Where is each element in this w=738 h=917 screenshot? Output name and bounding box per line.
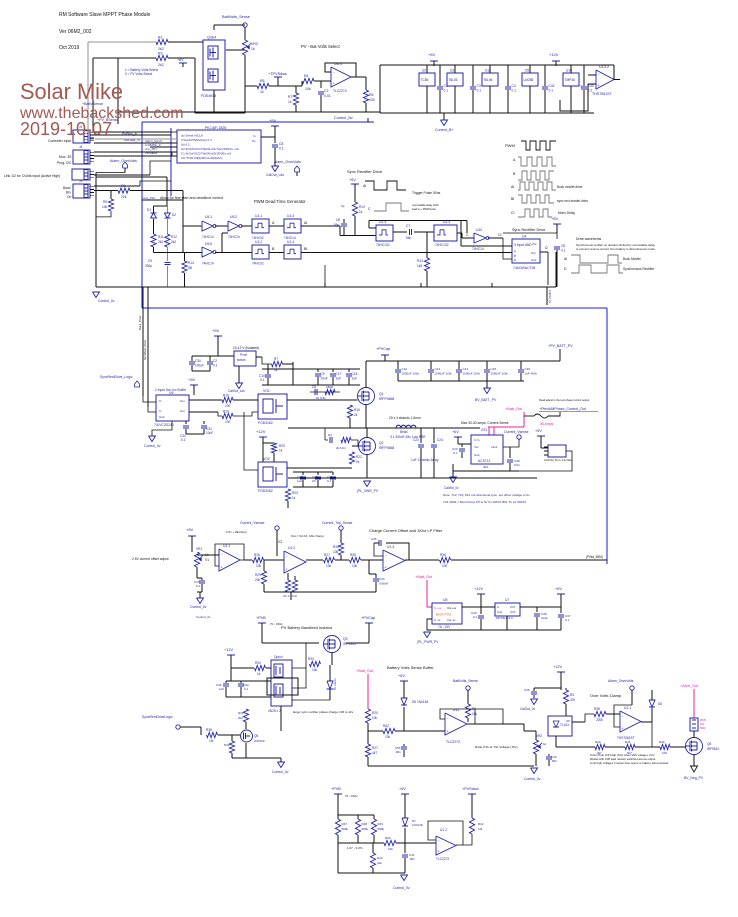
svg-text:IRFP4668: IRFP4668 — [379, 397, 394, 401]
svg-text:TC55: TC55 — [421, 78, 429, 82]
svg-text:V1: V1 — [205, 558, 209, 562]
svg-text:Control_0v: Control_0v — [393, 886, 410, 890]
svg-text:10k: 10k — [385, 735, 391, 739]
svg-text:monostable delay 100n: monostable delay 100n — [412, 203, 439, 207]
svg-text:U5.1: U5.1 — [205, 215, 212, 219]
svg-text:MC78LF-5.0: MC78LF-5.0 — [496, 616, 513, 620]
svg-text:R16: R16 — [354, 408, 360, 412]
svg-text:TLC2272: TLC2272 — [446, 740, 460, 744]
svg-text:+Batt_Out: +Batt_Out — [415, 575, 433, 579]
svg-text:0.1: 0.1 — [327, 479, 332, 483]
svg-text:C14: C14 — [463, 367, 469, 371]
svg-text:Alarm_OverVolts: Alarm_OverVolts — [274, 160, 301, 164]
svg-text:THS7081ST: THS7081ST — [592, 92, 613, 96]
svg-text:C7: C7 — [406, 224, 410, 228]
svg-text:0.01: 0.01 — [324, 94, 331, 98]
svg-text:330p: 330p — [145, 264, 152, 268]
svg-text:Cl: Cl — [498, 233, 502, 237]
svg-text:R8: R8 — [121, 184, 125, 188]
svg-text:Al: Al — [363, 184, 366, 188]
svg-text:2k2: 2k2 — [158, 47, 164, 51]
svg-text:4k7: 4k7 — [372, 751, 377, 755]
svg-text:R32: R32 — [255, 661, 261, 665]
svg-text:10k: 10k — [372, 716, 378, 720]
svg-text:74HC02: 74HC02 — [252, 262, 264, 266]
svg-text:Q3: Q3 — [343, 637, 348, 641]
svg-text:40A: 40A — [483, 465, 488, 469]
svg-text:C36: C36 — [524, 688, 530, 692]
svg-text:R7: R7 — [288, 95, 292, 99]
svg-text:Q2: Q2 — [379, 441, 384, 445]
svg-text:U10: U10 — [476, 228, 482, 232]
svg-text:PIC16F-1826: PIC16F-1826 — [205, 126, 226, 130]
svg-text:R20: R20 — [372, 711, 378, 715]
svg-text:C30: C30 — [195, 359, 201, 363]
svg-text:+6V: +6V — [551, 216, 559, 221]
svg-text:U1.1: U1.1 — [255, 214, 262, 218]
svg-text:R38: R38 — [206, 728, 212, 732]
svg-text:R1: R1 — [158, 36, 163, 40]
svg-text:100: 100 — [225, 420, 231, 424]
svg-text:Max 30-40 amps, Current Sense: Max 30-40 amps, Current Sense — [461, 421, 509, 425]
svg-text:+Batt_Out: +Batt_Out — [356, 669, 374, 673]
svg-text:PWM Dead Time Generator: PWM Dead Time Generator — [254, 199, 306, 204]
svg-text:VR3: VR3 — [251, 42, 258, 46]
svg-text:+PVSdsw: +PVSdsw — [462, 787, 479, 791]
svg-text:C18: C18 — [352, 372, 358, 376]
svg-text:U1.2: U1.2 — [255, 240, 262, 244]
svg-text:A: A — [514, 249, 516, 253]
svg-text:U13.2: U13.2 — [599, 65, 609, 69]
svg-text:10uF: 10uF — [321, 377, 328, 381]
svg-text:R39: R39 — [224, 743, 230, 747]
svg-text:Control_0v: Control_0v — [190, 605, 207, 609]
svg-text:+TPVSdsw: +TPVSdsw — [268, 72, 287, 76]
svg-text:.001: .001 — [551, 759, 557, 763]
svg-text:R22: R22 — [356, 455, 362, 459]
svg-text:+PV_BATT_PV: +PV_BATT_PV — [548, 344, 573, 348]
svg-text:723 40A5 = 50mV/Amp P8 to 5v f: 723 40A5 = 50mV/Amp P8 to 5v for 20Khz B… — [443, 500, 527, 504]
svg-text:20 x 4 strands 1.6mm: 20 x 4 strands 1.6mm — [389, 416, 421, 420]
svg-text:Buck mosfet drive: Buck mosfet drive — [557, 185, 583, 189]
svg-text:0.1: 0.1 — [260, 378, 265, 382]
svg-text:Al: Al — [564, 257, 567, 261]
svg-text:CalOut_Lds: CalOut_Lds — [266, 173, 284, 177]
svg-text:1M: 1M — [478, 827, 483, 831]
svg-text:+5V: +5V — [212, 328, 220, 333]
svg-text:Sp: Sp — [341, 204, 345, 208]
svg-text:U4: U4 — [522, 235, 526, 239]
svg-text:+PVCap: +PVCap — [376, 347, 390, 351]
svg-text:2k2: 2k2 — [158, 63, 164, 67]
svg-text:U7: U7 — [505, 598, 509, 602]
svg-text:R41: R41 — [625, 740, 631, 744]
svg-text:Bl: Bl — [511, 197, 514, 201]
svg-text:U1.3: U1.3 — [287, 214, 294, 218]
svg-text:R27: R27 — [372, 746, 378, 750]
svg-text:Alarm_OverVolts: Alarm_OverVolts — [608, 679, 634, 683]
svg-text:Limit high voltages if output: Limit high voltages if output fuse opens… — [590, 761, 669, 765]
svg-text:+6V: +6V — [555, 587, 562, 591]
svg-text:+PVCap: +PVCap — [361, 616, 375, 620]
svg-text:0.1: 0.1 — [477, 89, 482, 93]
svg-text:Control_0v: Control_0v — [98, 299, 115, 303]
svg-text:U2: U2 — [422, 69, 426, 73]
svg-text:0.1: 0.1 — [181, 438, 186, 442]
svg-text:R9: R9 — [103, 200, 107, 204]
svg-text:3 Input AND: 3 Input AND — [514, 243, 532, 247]
svg-text:680k: 680k — [378, 827, 385, 831]
svg-text:1k: 1k — [292, 496, 296, 500]
svg-text:70 - 150v: 70 - 150v — [345, 794, 358, 798]
svg-text:56p: 56p — [334, 223, 340, 227]
svg-text:(PWa_55M): (PWa_55M) — [586, 555, 603, 559]
svg-text:1k: 1k — [543, 742, 547, 746]
svg-text:CS1: CS1 — [481, 428, 487, 432]
svg-text:Q6: Q6 — [707, 742, 711, 746]
svg-text:1k: 1k — [288, 100, 292, 104]
svg-text:+12V: +12V — [256, 429, 266, 434]
svg-text:In In: In In — [474, 438, 480, 442]
svg-text:7A - 15V: 7A - 15V — [438, 625, 451, 629]
svg-text:78L06: 78L06 — [484, 78, 493, 82]
svg-text:R10: R10 — [359, 205, 365, 209]
svg-text:+6V: +6V — [349, 178, 356, 182]
svg-text:D: D — [514, 258, 516, 262]
svg-text:Out = V2-V1, Min-V/amp: Out = V2-V1, Min-V/amp — [291, 534, 324, 538]
svg-text:0.1: 0.1 — [549, 89, 554, 93]
svg-text:Current_Vsense: Current_Vsense — [504, 430, 529, 434]
svg-text:Mono Delay: Mono Delay — [558, 211, 575, 215]
svg-text:74HC132: 74HC132 — [376, 243, 390, 247]
svg-text:J5: J5 — [79, 179, 83, 183]
svg-text:0.1: 0.1 — [512, 89, 517, 93]
svg-text:R47: R47 — [342, 822, 348, 826]
svg-text:680k: 680k — [342, 827, 349, 831]
svg-text:1000uF 100v: 1000uF 100v — [463, 372, 481, 376]
svg-text:(PL_0WR_PV: (PL_0WR_PV — [357, 489, 379, 493]
svg-text:R4: R4 — [304, 74, 309, 78]
svg-text:+12V: +12V — [474, 587, 483, 591]
svg-text:C2 Ib/Od/VCC/Thb0/0+b1/Tqv/1P: C2 Ib/Od/VCC/Thb0/0+b1/Tqv/1P0/b0+ mS — [181, 147, 239, 151]
svg-text:2k2: 2k2 — [158, 240, 163, 244]
svg-text:TMP36: TMP36 — [565, 78, 576, 82]
svg-text:Out: Out — [531, 251, 536, 255]
svg-text:0.01: 0.01 — [514, 463, 520, 467]
svg-text:Charge Current Offset and 1Khz: Charge Current Offset and 1Khz LP Filter — [369, 528, 443, 533]
svg-text:R36: R36 — [440, 553, 446, 557]
svg-text:larger sync rectifier pulses c: larger sync rectifier pulses charge C36 … — [293, 710, 354, 714]
svg-text:+PlexiAMPhase_Control_Out: +PlexiAMPhase_Control_Out — [539, 407, 586, 411]
svg-text:On: On — [67, 195, 71, 199]
svg-text:BattVolts_Sense: BattVolts_Sense — [222, 15, 250, 19]
svg-text:1P: 1P — [312, 479, 316, 483]
svg-text:10uF: 10uF — [541, 616, 548, 620]
svg-text:(a) Serial In/CLK: (a) Serial In/CLK — [181, 134, 203, 138]
svg-text:1000uF 100v: 1000uF 100v — [402, 372, 420, 376]
svg-text:C1: C1 — [444, 84, 448, 88]
svg-text:45 Amps: 45 Amps — [540, 422, 553, 426]
svg-text:J4: J4 — [79, 145, 83, 149]
svg-text:74HC14: 74HC14 — [202, 262, 214, 266]
svg-text:C0 /Thb0 0d(0)/D0+b+b0/DAC): C0 /Thb0 0d(0)/D0+b+b0/DAC) — [181, 156, 223, 160]
svg-text:IRFP4668: IRFP4668 — [379, 446, 394, 450]
svg-text:C16: C16 — [525, 367, 531, 371]
svg-text:1k: 1k — [260, 90, 264, 94]
svg-text:1uF 400v: 1uF 400v — [525, 372, 538, 376]
svg-text:0.1: 0.1 — [244, 687, 249, 691]
svg-text:C2: C2 — [213, 359, 217, 363]
svg-text:74HC24: 74HC24 — [228, 235, 240, 239]
svg-text:C6: C6 — [312, 385, 316, 389]
svg-text:R38: R38 — [594, 707, 600, 711]
svg-text:−: − — [622, 715, 624, 719]
svg-text:Aux_PIN: Aux_PIN — [143, 196, 155, 200]
svg-text:4N25 x 2: 4N25 x 2 — [268, 709, 281, 713]
svg-text:6-R: 6-R — [292, 594, 298, 598]
svg-text:0.1: 0.1 — [565, 618, 570, 622]
svg-text:1uF: 1uF — [219, 687, 224, 691]
svg-text:In: In — [253, 134, 256, 138]
svg-text:R34: R34 — [333, 545, 339, 549]
svg-text:R48: R48 — [362, 822, 368, 826]
svg-text:Over Volts Clamp: Over Volts Clamp — [590, 693, 622, 698]
svg-text:Q5: Q5 — [254, 734, 258, 738]
svg-text:1k: 1k — [251, 47, 255, 51]
svg-text:Bead: Bead — [400, 430, 408, 434]
svg-text:TLC2274: TLC2274 — [333, 89, 347, 93]
svg-text:VO2: VO2 — [263, 457, 270, 461]
svg-text:D6: D6 — [658, 702, 662, 706]
svg-text:Al: Al — [304, 221, 307, 225]
svg-text:C8: C8 — [336, 218, 340, 222]
svg-text:R45: R45 — [385, 836, 391, 840]
svg-text:Control_0v: Control_0v — [524, 777, 541, 781]
svg-text:U9: U9 — [169, 391, 173, 395]
svg-text:+: + — [438, 850, 440, 854]
svg-text:22k: 22k — [121, 195, 127, 199]
svg-text:Buck Mosfet: Buck Mosfet — [623, 257, 641, 261]
svg-text:Out: Out — [180, 399, 185, 403]
svg-text:D2: D2 — [172, 213, 176, 217]
svg-text:1k: 1k — [279, 449, 283, 453]
svg-text:Current_B+: Current_B+ — [435, 128, 453, 132]
svg-text:−: − — [221, 553, 223, 557]
svg-text:OUT: OUT — [510, 610, 516, 614]
svg-text:CalOut_0v: CalOut_0v — [548, 290, 552, 304]
svg-text:Baud: Baud — [63, 186, 71, 190]
svg-text:−: − — [447, 717, 449, 721]
svg-text:IRF4905: IRF4905 — [343, 642, 356, 646]
svg-text:Pv: Pv — [252, 139, 256, 143]
svg-text:C34: C34 — [379, 577, 385, 581]
svg-text:Current_Trip_Sense: Current_Trip_Sense — [322, 521, 353, 525]
svg-text:FOD3182: FOD3182 — [258, 489, 273, 493]
svg-text:Bin: Bin — [66, 191, 71, 195]
svg-text:Note: 712, 723, 812 uni-direct: Note: 712, 723, 812 uni-directional type… — [443, 493, 530, 497]
svg-text:R43: R43 — [378, 822, 384, 826]
svg-text:R20: R20 — [279, 444, 285, 448]
svg-text:BV_BATT_PV: BV_BATT_PV — [475, 398, 497, 402]
svg-text:R11: R11 — [158, 235, 164, 239]
svg-text:Gnd: Gnd — [497, 610, 502, 614]
svg-text:Control_0v: Control_0v — [272, 770, 289, 774]
svg-text:180R: 180R — [326, 385, 334, 389]
svg-text:74HC14: 74HC14 — [472, 247, 484, 251]
svg-text:1uF Ceramic Array: 1uF Ceramic Array — [411, 458, 439, 462]
svg-text:SyncRectDrive_Logic: SyncRectDrive_Logic — [100, 375, 133, 379]
svg-text:10k: 10k — [326, 564, 332, 568]
svg-text:Alarm_OverVolts: Alarm_OverVolts — [110, 159, 137, 163]
svg-text:BattVolts_Sense: BattVolts_Sense — [453, 679, 478, 683]
svg-text:+PVB: +PVB — [256, 616, 266, 620]
svg-text:10k: 10k — [388, 847, 393, 851]
svg-text:47k: 47k — [570, 698, 576, 702]
svg-text:2k 6.0n: 2k 6.0n — [336, 446, 346, 450]
svg-text:VR2: VR2 — [536, 734, 542, 738]
svg-text:Allow for fine start and deadt: Allow for fine start and deadtime contro… — [160, 196, 223, 200]
svg-text:78L05: 78L05 — [449, 78, 458, 82]
svg-text:U5.2: U5.2 — [230, 215, 237, 219]
svg-text:D4: D4 — [328, 433, 332, 437]
svg-text:C9: C9 — [148, 259, 152, 263]
svg-text:100uF: 100uF — [195, 364, 204, 368]
svg-text:74HC132: 74HC132 — [435, 243, 449, 247]
svg-text:C: C — [466, 233, 469, 237]
svg-text:C: C — [368, 207, 371, 211]
svg-text:.001: .001 — [395, 750, 401, 754]
svg-text:TLC2272: TLC2272 — [436, 857, 449, 861]
svg-text:6B: 6B — [188, 266, 192, 270]
svg-text:D1: D1 — [147, 208, 151, 212]
svg-text:C8: C8 — [279, 142, 283, 146]
svg-text:Gnd: Gnd — [474, 453, 480, 457]
svg-text:(T/p/p/b/VM)/Vq/(p) 0.4: (T/p/p/b/VM)/Vq/(p) 0.4 — [181, 138, 212, 142]
svg-text:sync rect mosfet drive: sync rect mosfet drive — [557, 199, 588, 203]
svg-text:RM Software Slave MPPT Phase M: RM Software Slave MPPT Phase Module — [59, 12, 151, 18]
svg-text:R46: R46 — [659, 740, 665, 744]
svg-text:1N4148: 1N4148 — [412, 823, 423, 827]
svg-text:1.07 - 3.37v: 1.07 - 3.37v — [347, 846, 363, 850]
svg-text:R15: R15 — [223, 394, 229, 398]
svg-text:U1.2: U1.2 — [440, 828, 447, 832]
svg-text:+12V: +12V — [224, 648, 233, 652]
svg-text:0.1: 0.1 — [279, 147, 284, 151]
svg-text:0.1: 0.1 — [453, 451, 458, 455]
svg-text:Q1: Q1 — [379, 392, 384, 396]
svg-text:R33: R33 — [308, 657, 314, 661]
svg-text:Current_Vsense: Current_Vsense — [240, 521, 265, 525]
svg-text:R25: R25 — [254, 553, 260, 557]
svg-text:R7: R7 — [274, 357, 278, 361]
svg-text:−: − — [438, 839, 440, 843]
svg-text:PV - Bat Volts Select: PV - Bat Volts Select — [301, 44, 340, 49]
svg-text:0.1: 0.1 — [561, 249, 566, 253]
svg-text:10-12 V (isolated): 10-12 V (isolated) — [233, 346, 259, 350]
svg-text:Sync Rectifier Drive: Sync Rectifier Drive — [347, 169, 383, 174]
svg-text:PV Battery Backfeed Isolator: PV Battery Backfeed Isolator — [281, 625, 333, 630]
svg-text:U1.3: U1.3 — [387, 545, 394, 549]
svg-text:2k 6.8n: 2k 6.8n — [316, 396, 326, 400]
svg-text:74LVC2G240: 74LVC2G240 — [154, 423, 174, 427]
svg-text:R6: R6 — [369, 93, 374, 97]
svg-text:0.1: 0.1 — [444, 89, 449, 93]
svg-text:Viout: Viout — [491, 445, 498, 449]
svg-text:3C-4: 3C-4 — [283, 594, 290, 598]
svg-text:10k: 10k — [305, 87, 311, 91]
svg-text:CalOut_Ldv: CalOut_Ldv — [228, 389, 245, 393]
svg-text:R31: R31 — [238, 711, 244, 715]
svg-text:R3: R3 — [158, 52, 163, 56]
svg-text:Battery Volts Sense Buffer: Battery Volts Sense Buffer — [387, 665, 434, 670]
svg-text:+6V: +6V — [186, 527, 194, 532]
svg-text:BV_Neg_PV: BV_Neg_PV — [684, 776, 704, 780]
svg-text:Gnd: Gnd — [531, 258, 537, 262]
svg-text:Al: Al — [511, 185, 514, 189]
svg-text:In +ve: In +ve — [434, 606, 442, 610]
svg-text:(PL_PWR_PV: (PL_PWR_PV — [417, 640, 439, 644]
svg-text:−: − — [286, 555, 288, 559]
svg-text:Trigger Pulse 50ns: Trigger Pulse 50ns — [412, 191, 441, 195]
svg-text:0 = PV Volts Select: 0 = PV Volts Select — [125, 72, 152, 76]
svg-text:Vcc: Vcc — [474, 445, 479, 449]
svg-text:D5 1N4148: D5 1N4148 — [412, 700, 428, 704]
svg-text:Control_Bv: Control_Bv — [334, 116, 353, 120]
svg-text:C4: C4 — [512, 84, 516, 88]
svg-text:−: − — [333, 70, 335, 74]
svg-text:U1.4: U1.4 — [287, 240, 294, 244]
svg-text:2.5v + 8kv/Amp: 2.5v + 8kv/Amp — [226, 530, 247, 534]
svg-text:FOD3182: FOD3182 — [258, 421, 273, 425]
svg-text:0.1: 0.1 — [213, 364, 218, 368]
svg-text:U1.1: U1.1 — [223, 544, 230, 548]
svg-text:R13: R13 — [417, 259, 423, 263]
svg-text:C12: C12 — [402, 367, 408, 371]
svg-text:In -ve: In -ve — [434, 618, 441, 622]
svg-text:Control_0v: Control_0v — [144, 444, 161, 448]
svg-text:C2: C2 — [324, 89, 329, 93]
svg-text:74HC14: 74HC14 — [202, 235, 214, 239]
svg-text:U1.2: U1.2 — [288, 546, 295, 550]
svg-text:SyncRect_Drive: SyncRect_Drive — [143, 340, 147, 360]
svg-text:C35: C35 — [371, 537, 377, 541]
svg-text:CalWd_0v: CalWd_0v — [444, 486, 459, 490]
svg-text:2k2: 2k2 — [171, 240, 176, 244]
svg-text:+: + — [333, 82, 335, 86]
svg-text:Prog, I2C: Prog, I2C — [57, 161, 72, 165]
svg-text:C1 Ib/Od/VCC/Thb0/0+b3/1P/0Ev: C1 Ib/Od/VCC/Thb0/0+b3/1P/0Ev mS — [181, 152, 231, 156]
svg-text:D: D — [545, 246, 548, 250]
svg-text:+6V: +6V — [535, 429, 542, 433]
svg-text:10k: 10k — [102, 205, 108, 209]
svg-text:R23: R23 — [292, 491, 298, 495]
svg-text:+: + — [286, 567, 288, 571]
svg-text:Bl: Bl — [304, 247, 307, 251]
svg-text:R29: R29 — [255, 573, 261, 577]
svg-text:Buck_Drive: Buck_Drive — [138, 315, 142, 330]
svg-text:VR1: VR1 — [196, 547, 202, 551]
svg-text:+6V: +6V — [398, 674, 405, 678]
svg-text:1uF: 1uF — [297, 479, 302, 483]
svg-text:R42: R42 — [383, 724, 389, 728]
svg-text:U5: U5 — [525, 69, 529, 73]
svg-text:10k: 10k — [333, 550, 339, 554]
svg-text:2k: 2k — [354, 413, 358, 417]
svg-text:0.1: 0.1 — [196, 584, 201, 588]
svg-text:+PVB: +PVB — [331, 787, 341, 791]
svg-text:R14: R14 — [188, 261, 194, 265]
svg-text:100: 100 — [369, 98, 375, 102]
